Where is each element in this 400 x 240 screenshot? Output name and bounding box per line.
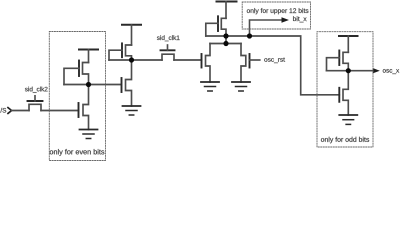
wire /S to sid_clk2 pass gate xyxy=(12,110,29,112)
transistor M7 osc_rst channel xyxy=(241,44,246,83)
transistor M2 gate bar xyxy=(78,103,80,117)
wire right cell output to osc_x xyxy=(327,70,374,72)
wire main output bus to right cell xyxy=(206,36,339,95)
label osc_x xyxy=(383,69,399,74)
wire M1 gate tie to output xyxy=(64,68,79,84)
transistor M4 driver (middle cell) channel xyxy=(126,60,132,106)
transistor M7 gate bar xyxy=(249,54,251,68)
ground latch left xyxy=(201,82,219,91)
wire VDD to load M3 xyxy=(131,25,133,45)
node /S input port xyxy=(0,108,11,114)
transistor sid_clk1 gate bar xyxy=(161,49,175,51)
power VDD rail top cell xyxy=(217,1,237,3)
wire sid_clk1 to latch left gate xyxy=(174,59,202,61)
transistor M6 gate bar xyxy=(201,54,203,68)
transistor sid_clk2 gate bar xyxy=(28,100,43,102)
power VDD rail middle cell xyxy=(122,24,141,26)
wire VDD to load M8 xyxy=(347,36,349,52)
boundary dashed box odd bits xyxy=(317,32,373,147)
wire left cell output node to middle driver gate xyxy=(64,84,121,86)
transistor sid_clk1 pass gate (channel bump) xyxy=(162,54,174,60)
power VDD rail right cell xyxy=(339,35,358,37)
transistor M3 gate bar xyxy=(121,43,123,57)
wire VDD to load M5 xyxy=(225,2,227,19)
transistor M4 gate bar xyxy=(121,78,123,92)
node left cell output junction xyxy=(86,82,91,87)
transistor M5 depletion load (top cell) channel xyxy=(221,18,226,36)
wire middle cell output to sid_clk1 xyxy=(109,59,162,61)
power VDD rail left cell xyxy=(79,49,98,51)
wire VDD to load M1 xyxy=(88,50,90,63)
ground osc_rst xyxy=(232,82,250,91)
label sid_clk1 xyxy=(157,35,180,41)
wire latch drain branch xyxy=(210,43,241,45)
label bit_x xyxy=(293,16,306,22)
node main bus junction at load xyxy=(223,33,228,38)
wire sid_clk2 gate stub xyxy=(34,96,36,101)
node osc_x arrowhead xyxy=(373,68,380,73)
node middle cell output junction xyxy=(129,57,134,62)
transistor M1 depletion load (left cell) channel xyxy=(83,63,89,85)
ground left cell xyxy=(80,130,98,139)
transistor M8 depletion load (right cell) channel xyxy=(343,52,348,70)
node bit_x arrowhead xyxy=(282,17,290,23)
label only for even bits xyxy=(50,149,105,156)
transistor M2 driver (left cell) channel xyxy=(83,85,89,130)
label only for upper 12 bits xyxy=(247,8,309,14)
label only for odd bits xyxy=(321,137,369,143)
ground middle cell xyxy=(123,106,141,115)
wire osc_rst gate lead xyxy=(250,59,260,61)
wire M8 gate tie to output xyxy=(327,58,340,71)
node latch drain junction xyxy=(223,41,228,46)
wire M5 gate tie to output xyxy=(206,23,218,36)
ground right cell xyxy=(339,115,357,124)
label osc_rst xyxy=(264,58,285,63)
transistor M5 gate bar xyxy=(217,16,219,31)
wire sid_clk1 gate stub xyxy=(167,45,169,50)
wire sid_clk2 to M2 driver gate xyxy=(41,110,79,112)
node right cell output junction xyxy=(346,68,351,73)
transistor M9 driver (right cell) channel xyxy=(343,71,348,115)
transistor M1 gate bar xyxy=(78,61,80,77)
boundary dashed box upper 12 bits xyxy=(242,2,310,29)
wire riser to latch pair xyxy=(225,36,227,44)
transistor M8 gate bar xyxy=(338,51,340,66)
wire M3 gate tie to output xyxy=(109,50,122,60)
transistor sid_clk2 pass gate (channel bump) xyxy=(29,104,41,110)
node main bus junction at bit_x tap xyxy=(247,33,252,38)
transistor M9 gate bar xyxy=(338,88,340,102)
wire bit_x tap arrow xyxy=(250,20,283,36)
transistor M3 depletion load (middle cell) channel xyxy=(126,45,132,60)
boundary dashed box even bits xyxy=(49,32,105,161)
transistor M6 latch left channel xyxy=(206,44,211,83)
label sid_clk2 xyxy=(25,87,48,93)
